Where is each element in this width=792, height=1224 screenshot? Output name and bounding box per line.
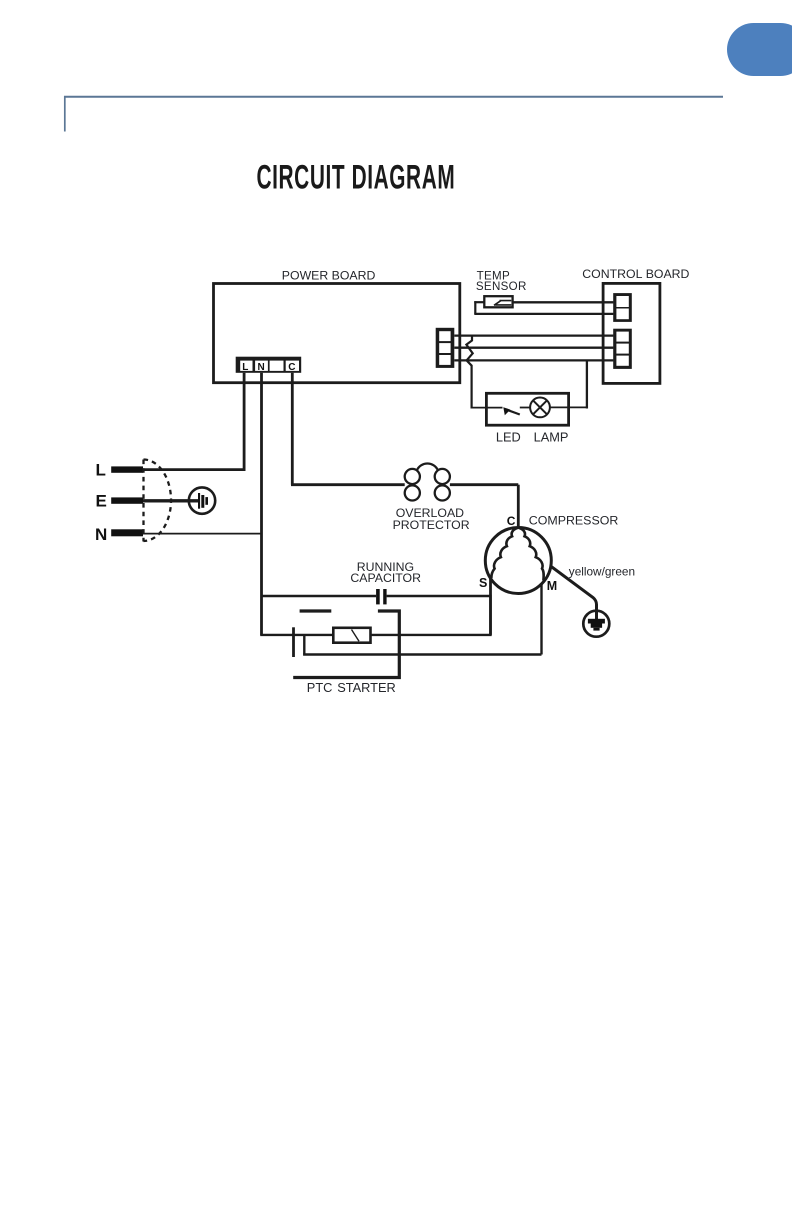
temp sensor inner thermistor mark [494, 300, 511, 305]
PTC starter case left stub [292, 627, 295, 657]
compressor winding squiggle [491, 528, 543, 581]
PTC diagonal mark [352, 630, 360, 642]
PTC starter case top left segment [300, 609, 332, 612]
svg-text:SENSOR: SENSOR [476, 280, 527, 293]
svg-text:yellow/green: yellow/green [569, 565, 635, 579]
wire: N row horizontal [143, 533, 262, 535]
wire: L row horizontal [143, 468, 246, 471]
svg-text:COMPRESSOR: COMPRESSOR [529, 514, 619, 528]
terminal block J1 (L N C) [236, 357, 302, 373]
wire: LED right riser [586, 360, 588, 408]
header rule left stub [64, 96, 66, 132]
PTC component body [333, 628, 370, 643]
wire: junction drop to M row [303, 635, 305, 655]
wire: lamp to right side [550, 406, 587, 408]
wire: yellow/green earth lead [551, 566, 597, 620]
overload protector OL1 [405, 463, 450, 500]
wire: sensor lower wire to control board [474, 313, 613, 315]
wire: squiggle branch to LED [466, 336, 472, 408]
wire: LED left entry [471, 407, 503, 409]
svg-text:CIRCUIT DIAGRAM: CIRCUIT DIAGRAM [257, 158, 456, 197]
wire: capacitor row right [387, 595, 491, 597]
svg-text:BOARD: BOARD [646, 267, 690, 281]
control board connector P3 (3-pin) [613, 329, 632, 369]
header rule [64, 96, 723, 98]
earth bars inside circle [198, 493, 208, 509]
svg-text:L: L [242, 362, 248, 373]
svg-text:M: M [547, 579, 557, 593]
wire: L terminal down [243, 373, 246, 470]
wire: M drop [540, 584, 542, 655]
wire: M row horizontal [303, 653, 541, 655]
power board U1 outline [214, 284, 460, 383]
control board connector P2 (2-pin) [613, 293, 632, 322]
svg-text:C: C [507, 514, 516, 528]
wire: C row to overload protector [291, 483, 405, 486]
svg-text:LAMP: LAMP [534, 429, 569, 444]
plug outline dashed arc [144, 460, 172, 542]
svg-text:C: C [288, 362, 295, 373]
capacitor C1 plates [376, 589, 380, 604]
svg-text:N: N [95, 525, 107, 544]
svg-text:CONTROL: CONTROL [582, 267, 642, 281]
svg-text:POWER BOARD: POWER BOARD [282, 269, 376, 283]
PTC starter case top right + right edge + bottom [293, 611, 399, 678]
LED switch arrow head [503, 407, 510, 415]
wire: N terminal down to PTC row [260, 373, 263, 635]
svg-text:N: N [258, 362, 265, 373]
wire: switch to lamp [520, 407, 530, 409]
wire: capacitor row left [262, 595, 377, 597]
LED switch lever [506, 409, 520, 414]
wire: sensor upper wire to control board [513, 301, 614, 303]
svg-text:PROTECTOR: PROTECTOR [393, 518, 470, 532]
svg-text:CAPACITOR: CAPACITOR [350, 571, 421, 585]
wire: overload to compressor C [450, 483, 518, 486]
wire: PTC row left [260, 634, 333, 636]
earth ground bars [588, 619, 605, 631]
wire: S drop [489, 578, 492, 635]
power board connector P1 [436, 328, 455, 368]
wire: interboard wire 1 [454, 334, 613, 336]
wire: sensor left lead [474, 301, 484, 303]
wire: C terminal down [291, 373, 294, 485]
svg-text:STARTER: STARTER [337, 680, 396, 695]
svg-text:PTC: PTC [307, 680, 333, 695]
plug pin L bar [111, 466, 143, 472]
temp sensor RT1 body [484, 296, 512, 307]
wire: interboard wire 2 [454, 347, 613, 349]
svg-text:E: E [96, 492, 107, 511]
wire: compressor C drop [517, 485, 520, 529]
wire: sensor left drop [474, 301, 476, 314]
plug outline dashed vertical [142, 460, 144, 542]
plug pin N bar [111, 529, 143, 536]
control board U2 outline [603, 283, 660, 383]
compressor M1 circle [485, 528, 551, 594]
earth electrode circle [189, 487, 215, 513]
svg-text:L: L [96, 461, 106, 480]
wire: interboard wire 3 [454, 359, 613, 361]
LED lamp box [486, 393, 568, 425]
wire: PTC row right [371, 595, 491, 635]
lamp circle with X [530, 398, 550, 418]
wire: E to earth circle [143, 499, 198, 502]
svg-text:S: S [479, 576, 487, 590]
page tab (blue pill, top right) [727, 23, 792, 76]
earth ground circle [583, 611, 609, 637]
plug pin E bar [111, 497, 143, 503]
svg-text:LED: LED [496, 429, 521, 444]
